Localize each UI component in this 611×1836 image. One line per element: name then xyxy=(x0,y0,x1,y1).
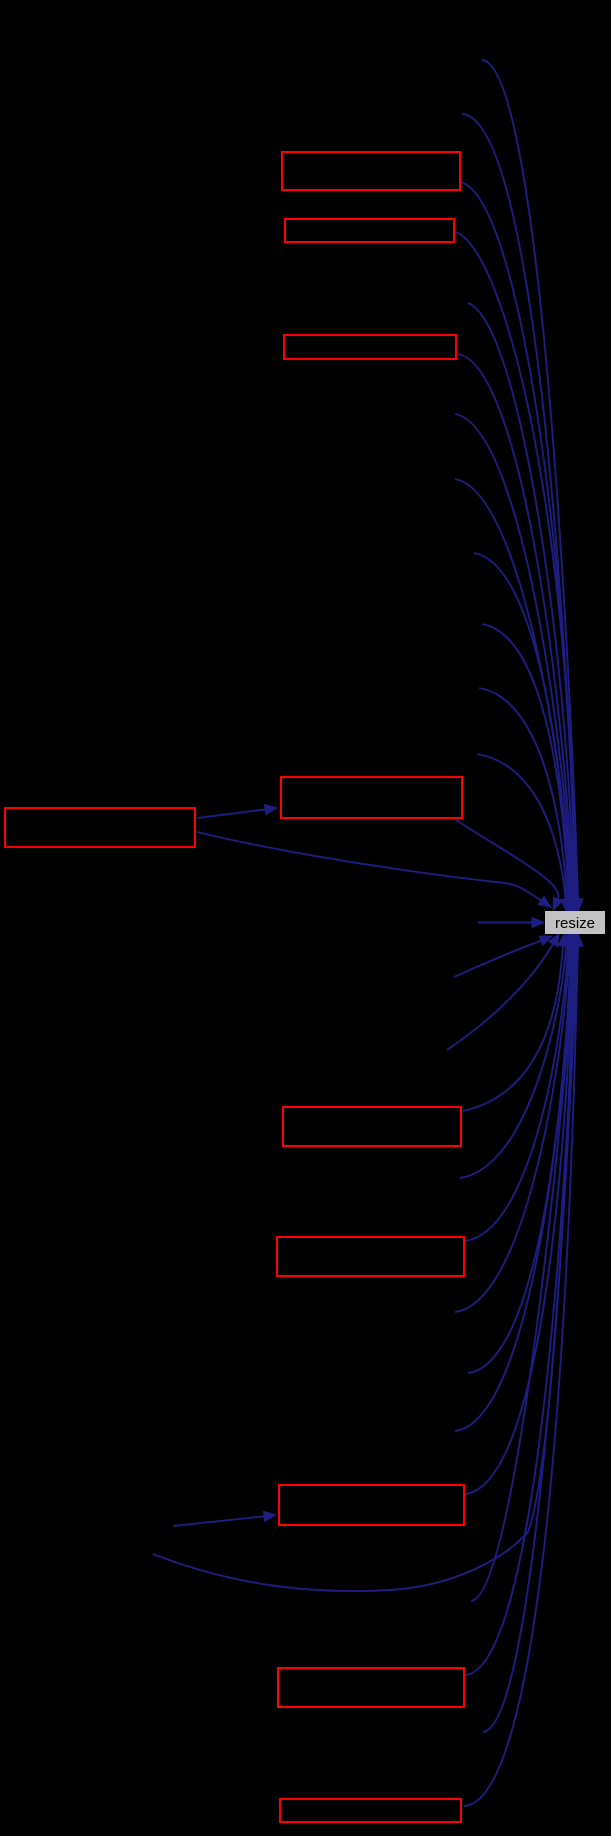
node box9 xyxy=(280,1799,461,1822)
node box4 xyxy=(281,777,462,818)
edge E10 xyxy=(482,624,569,899)
edge E16 xyxy=(454,941,541,977)
edge E27 from box8 xyxy=(465,946,576,1675)
node box3 xyxy=(284,335,456,359)
svg-text:resize: resize xyxy=(555,915,595,932)
edge E4 from box2 xyxy=(456,232,575,899)
node box1 xyxy=(282,152,460,190)
edge E11 xyxy=(479,688,567,899)
edge E22 xyxy=(468,946,571,1373)
edge E15 xyxy=(478,922,532,924)
edge E21 xyxy=(455,946,570,1312)
edge E20 from box6 xyxy=(465,946,568,1241)
edge E26 xyxy=(471,946,575,1601)
node box8 xyxy=(278,1668,464,1707)
node resize xyxy=(545,911,605,934)
edge E18 from box5 xyxy=(463,946,563,1111)
edge E9 xyxy=(474,553,570,899)
edge E24 from box7 xyxy=(465,946,573,1494)
node box2 xyxy=(285,219,454,242)
edge E28 xyxy=(483,946,577,1732)
edge E12 xyxy=(477,754,566,899)
node box7 xyxy=(279,1485,464,1525)
edge E7 xyxy=(455,414,572,899)
edge E13 from box4 xyxy=(456,820,559,899)
edge E30 left box to box4 xyxy=(197,810,265,819)
edge E25 xyxy=(153,946,574,1591)
edge E17 xyxy=(447,944,553,1050)
edge E19 xyxy=(460,946,566,1178)
node box5 xyxy=(283,1107,461,1146)
edge E14 from left box xyxy=(197,832,541,900)
edge E23 xyxy=(455,946,572,1431)
edge E31 to box7 xyxy=(173,1516,264,1526)
edge E8 xyxy=(455,479,571,899)
edge E6 xyxy=(458,354,573,899)
edge E3 from box1 xyxy=(461,182,576,899)
edge E2 xyxy=(462,114,577,899)
edge E5 xyxy=(468,303,574,899)
edge E1 xyxy=(482,60,578,899)
node box6 xyxy=(277,1237,464,1276)
node left box xyxy=(5,808,195,847)
edge E29 from box9 xyxy=(464,946,578,1806)
